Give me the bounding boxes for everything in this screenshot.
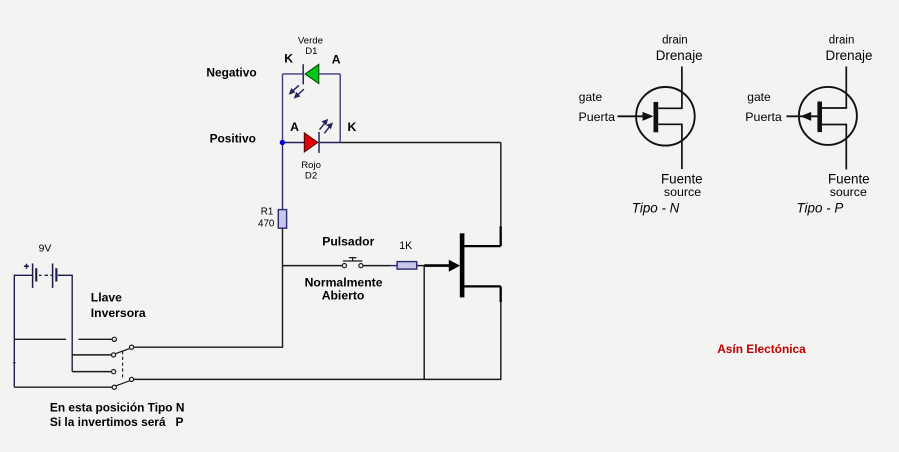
LED loop left vertical (282, 74, 284, 143)
battery BT1 9V (14, 264, 72, 288)
svg-text:A: A (332, 53, 341, 67)
svg-text:A: A (290, 120, 299, 134)
resistor 1K (397, 262, 417, 270)
MOSFET symbol Tipo-N circle (636, 87, 695, 146)
svg-text:Inversora: Inversora (91, 306, 146, 320)
switch blade lower (116, 381, 130, 386)
svg-text:source: source (830, 185, 867, 199)
svg-text:Llave: Llave (91, 290, 122, 304)
diode D2 red LED (304, 133, 318, 152)
transistor Q1 gate lead with arrow (424, 264, 449, 267)
transistor Q1 drain lead (464, 245, 501, 247)
svg-text:Drenaje: Drenaje (826, 48, 873, 63)
node Positivo junction dot (280, 140, 285, 145)
switch SW1 terminal contacts (112, 337, 117, 389)
diode D1 green LED (302, 64, 304, 84)
wire stub on left vertical (13, 362, 16, 364)
LED loop top side (283, 73, 341, 75)
LED loop right vertical (339, 74, 341, 143)
svg-text:Tipo - N: Tipo - N (632, 200, 680, 215)
svg-text:R1: R1 (261, 207, 274, 218)
svg-text:Pulsador: Pulsador (322, 234, 374, 248)
Tipo-P gate bar (817, 102, 822, 133)
svg-text:gate: gate (747, 90, 771, 104)
D2 emission arrows (320, 120, 332, 133)
svg-text:Puerta: Puerta (579, 110, 616, 124)
svg-text:Rojo: Rojo (301, 160, 321, 171)
switch blade upper (115, 349, 129, 354)
wire switch terminal 3 row (72, 371, 111, 373)
resistor R1 470 (282, 143, 284, 210)
pushbutton actuator bar (343, 258, 362, 261)
switch SW1 pole contacts (130, 345, 134, 381)
Tipo-P source lead (822, 125, 846, 170)
svg-text:Si la invertimos será P: Si la invertimos será P (50, 415, 184, 429)
D1 emission arrows (290, 85, 304, 97)
wire switch terminal 4 row (bottom) (14, 386, 112, 388)
wire source down to bottom rail (500, 302, 502, 379)
svg-text:K: K (348, 120, 357, 134)
wire pushbutton row from R1 branch (283, 265, 343, 267)
svg-text:D2: D2 (305, 170, 317, 181)
wire gate junction down to bottom rail (423, 266, 425, 380)
svg-text:D1: D1 (305, 46, 317, 57)
wire pole1 to R1 branch (134, 228, 283, 347)
svg-text:1K: 1K (399, 240, 412, 252)
svg-text:En esta posición Tipo N: En esta posición Tipo N (50, 401, 185, 415)
svg-text:K: K (284, 51, 293, 65)
svg-text:Asín Electónica: Asín Electónica (717, 342, 806, 356)
svg-text:470: 470 (258, 218, 275, 229)
wire top rail from LED loop (340, 142, 501, 144)
transistor Q1 channel bar (460, 233, 465, 297)
svg-text:Positivo: Positivo (210, 132, 256, 146)
pushbutton S1 contacts (342, 264, 363, 268)
wire pole2 bottom rail (134, 378, 502, 380)
svg-text:source: source (664, 185, 701, 199)
svg-text:Tipo - P: Tipo - P (797, 200, 844, 215)
wire switch terminal 1 row (with hop gap) (14, 338, 112, 340)
wire 1K to gate junction (417, 265, 424, 267)
svg-text:Puerta: Puerta (745, 110, 782, 124)
Tipo-N gate lead arrow (618, 115, 645, 117)
svg-text:Negativo: Negativo (206, 66, 256, 80)
wire switch terminal 2 row (72, 354, 111, 356)
Tipo-P drain lead (822, 67, 846, 109)
wire battery negative left vertical (13, 275, 15, 388)
wire drain up to top rail (500, 143, 502, 227)
wire pushbutton to 1K resistor (363, 265, 390, 267)
Tipo-N gate bar (654, 102, 659, 132)
MOSFET symbol Tipo-P circle (799, 87, 857, 145)
switch linkage dashed (122, 351, 124, 378)
svg-text:Abierto: Abierto (322, 288, 365, 302)
svg-text:drain: drain (662, 35, 688, 47)
svg-text:drain: drain (829, 35, 855, 47)
svg-text:Normalmente: Normalmente (305, 275, 383, 289)
Tipo-N source lead (658, 124, 682, 169)
transistor Q1 source lead (464, 285, 501, 287)
svg-text:gate: gate (579, 90, 603, 104)
Tipo-N drain lead (658, 67, 682, 109)
Tipo-P gate lead arrow (787, 115, 818, 117)
wire positivo node to D2 (283, 142, 305, 144)
svg-text:9V: 9V (39, 243, 52, 254)
wire battery positive right vertical (71, 275, 73, 372)
svg-text:Drenaje: Drenaje (656, 48, 703, 63)
